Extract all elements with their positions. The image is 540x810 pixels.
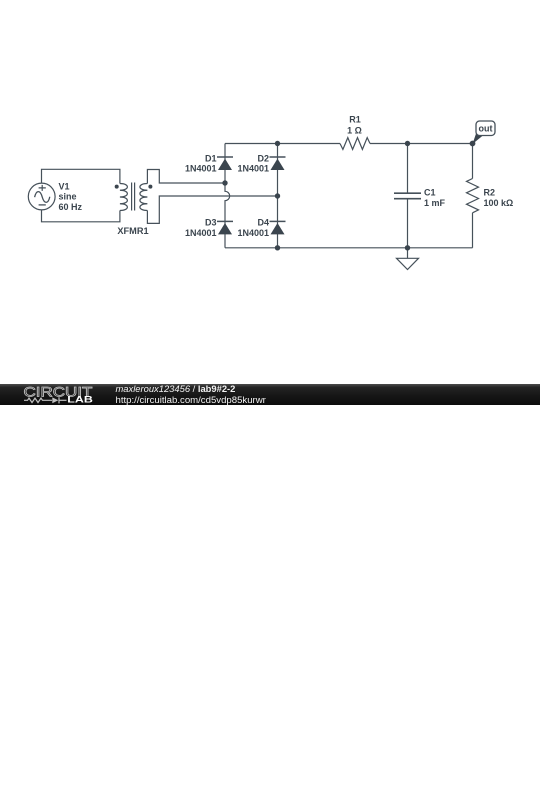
svg-text:1N4001: 1N4001 xyxy=(237,228,269,238)
svg-text:XFMR1: XFMR1 xyxy=(117,226,148,236)
diode D2 xyxy=(270,157,286,170)
label D1 1N4001 xyxy=(185,153,217,173)
diode D3 xyxy=(217,221,233,234)
diode D1 xyxy=(217,157,233,170)
wire top rail right of R1 xyxy=(370,143,473,145)
svg-text:100 kΩ: 100 kΩ xyxy=(484,198,514,208)
svg-text:R1: R1 xyxy=(349,114,361,124)
logo resistor-diode glyph xyxy=(24,397,67,403)
svg-text:LAB: LAB xyxy=(67,395,93,405)
diode D4 xyxy=(270,221,286,234)
primary phase dot xyxy=(115,185,119,189)
wire bridge left branch with hop xyxy=(225,144,230,248)
core lines xyxy=(132,183,135,211)
junction dots xyxy=(222,141,475,251)
svg-text:1N4001: 1N4001 xyxy=(185,228,217,238)
wire left loop top xyxy=(42,169,120,183)
wire bridge right branch xyxy=(277,144,279,248)
svg-text:C1: C1 xyxy=(424,188,436,198)
node out flag xyxy=(473,121,496,144)
svg-text:1N4001: 1N4001 xyxy=(237,164,269,174)
voltage source V1 xyxy=(28,183,55,210)
svg-text:D1: D1 xyxy=(205,153,217,163)
node out xyxy=(470,141,476,147)
footer bar xyxy=(0,384,540,405)
svg-text:D4: D4 xyxy=(257,218,269,228)
resistor R1 xyxy=(340,138,370,150)
svg-text:1N4001: 1N4001 xyxy=(185,164,217,174)
label C1 1 mF xyxy=(424,188,446,208)
wire secondary top lead to bridge xyxy=(147,170,225,184)
node bottom rail / D4 xyxy=(275,245,280,250)
node top rail / C1 xyxy=(405,141,410,146)
node D1/D3 secondary top xyxy=(222,180,227,185)
svg-text:D2: D2 xyxy=(257,153,269,163)
label D3 1N4001 xyxy=(185,218,217,238)
svg-text:maxleroux123456 / lab9#2-2: maxleroux123456 / lab9#2-2 xyxy=(116,383,236,394)
capacitor C1 xyxy=(394,144,421,248)
transformer XFMR1 xyxy=(115,183,153,211)
primary winding xyxy=(120,184,127,211)
wire bottom rail xyxy=(225,247,473,249)
wire secondary bottom lead to bridge xyxy=(147,196,277,223)
svg-text:out: out xyxy=(479,124,493,134)
svg-text:V1: V1 xyxy=(59,182,70,192)
node D2/D4 secondary bottom xyxy=(275,193,280,198)
wire top rail left of R1 xyxy=(225,143,340,145)
svg-text:sine: sine xyxy=(59,192,77,202)
svg-text:60 Hz: 60 Hz xyxy=(59,202,83,212)
label R2 100 kOhm xyxy=(484,188,514,208)
secondary phase dot xyxy=(148,185,152,189)
secondary winding xyxy=(140,184,148,211)
resistor R2 xyxy=(467,144,479,248)
svg-text:R2: R2 xyxy=(484,188,496,198)
node bottom rail / ground xyxy=(405,245,410,250)
label D2 1N4001 xyxy=(237,153,269,173)
svg-text:1 mF: 1 mF xyxy=(424,198,446,208)
ground xyxy=(397,248,419,270)
svg-text:1 Ω: 1 Ω xyxy=(347,125,362,135)
node top rail / D2 xyxy=(275,141,280,146)
wire left loop bottom xyxy=(42,210,120,222)
label R1 1 Ohm xyxy=(347,114,362,135)
svg-text:http://circuitlab.com/cd5vdp85: http://circuitlab.com/cd5vdp85kurwr xyxy=(116,395,267,405)
svg-text:D3: D3 xyxy=(205,218,217,228)
label V1 sine 60 Hz xyxy=(59,182,83,212)
label D4 1N4001 xyxy=(237,218,269,238)
